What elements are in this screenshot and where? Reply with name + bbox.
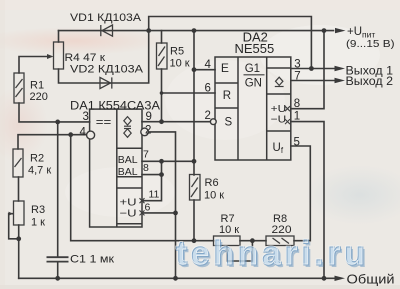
- wire DA1 pin11 line: [142, 161, 162, 200]
- IC DA2 NE555: [215, 57, 291, 160]
- junction pin 7 line to R6 top: [192, 159, 197, 164]
- wire DA1 pin7 line: [142, 160, 194, 162]
- svg-text:4: 4: [80, 126, 87, 138]
- wire DA2 pin8 to +U: [291, 31, 324, 109]
- svg-text:6: 6: [205, 83, 211, 95]
- svg-text:tehnari.ru: tehnari.ru: [175, 234, 368, 272]
- svg-text:7: 7: [143, 149, 149, 161]
- svg-text:3: 3: [294, 58, 300, 70]
- svg-text:R5: R5: [170, 46, 184, 58]
- resistor R7 (pot): [214, 236, 241, 246]
- svg-text:R4 47 к: R4 47 к: [65, 52, 106, 64]
- wire pin4 line DA1: [18, 135, 85, 149]
- junction DA1 ground branch on rail: [173, 276, 178, 281]
- arrow +Upit: [335, 28, 346, 33]
- junction pin 8 line to pin 11 branch: [159, 172, 164, 177]
- DA1 pin4 inversion circle: [87, 131, 95, 139]
- svg-text:BAL: BAL: [118, 154, 138, 166]
- svg-text:8: 8: [294, 98, 300, 110]
- IC DA1 K554CA3A: [90, 109, 142, 227]
- wire DA1 pin6 line: [142, 212, 176, 214]
- svg-text:2: 2: [145, 124, 151, 136]
- wire +U horizontal line: [59, 30, 334, 32]
- svg-text:VD1 КД103А: VD1 КД103А: [70, 12, 142, 24]
- svg-text:R2: R2: [30, 153, 44, 165]
- wire R6 bottom lead: [193, 200, 195, 241]
- wire bottom rail: [19, 277, 336, 279]
- svg-text:NE555: NE555: [235, 41, 275, 56]
- svg-text:1: 1: [294, 110, 300, 122]
- watermark tehnari.ru: [175, 234, 370, 275]
- svg-text:10 к: 10 к: [204, 189, 224, 201]
- junction +U line to R6 branch: [192, 28, 197, 33]
- wire DA2 pin3 output: [291, 68, 335, 70]
- DA1 pin2 inversion circle: [141, 128, 149, 136]
- wire R3 tap: [9, 214, 19, 239]
- wire DA2 pin7 output: [291, 80, 335, 82]
- DA1 open-collector diamonds: [124, 117, 131, 138]
- junction R5 bottom on pin 9 line: [159, 119, 164, 124]
- wire pin4 down branch: [71, 135, 214, 241]
- svg-text:7: 7: [294, 71, 300, 83]
- svg-text:G1: G1: [245, 63, 260, 75]
- svg-text:==: ==: [96, 115, 112, 129]
- svg-text:(9...15 В): (9...15 В): [346, 38, 395, 50]
- svg-text:R3: R3: [31, 204, 45, 216]
- junction pin 7 line to pin 8 branch: [159, 159, 164, 164]
- svg-text:−U: −U: [120, 207, 137, 219]
- wire DA1 pin9 to DA2 pin2: [142, 121, 210, 123]
- svg-text:R1: R1: [30, 80, 44, 92]
- wire VD2 line: [59, 31, 149, 83]
- svg-text:4,7 к: 4,7 к: [28, 165, 51, 177]
- wire DA1 pin2 to ground vertical: [148, 132, 175, 278]
- wire top rail (pin3 feedback): [149, 17, 312, 69]
- junction DA2 pin 3 output node: [309, 66, 314, 71]
- DA2 output diamond: [275, 77, 284, 86]
- svg-text:6: 6: [145, 202, 151, 214]
- wire DA2 pin1 to rail: [291, 122, 324, 279]
- junction R3 wiper tie: [16, 236, 21, 241]
- junction DA1 pin 6 to ground branch: [173, 211, 178, 216]
- wire x194 vertical: [193, 31, 195, 175]
- svg-text:3: 3: [83, 111, 89, 123]
- wire R3 bottom to rail: [18, 225, 20, 278]
- diode VD1: [101, 25, 113, 36]
- svg-text:Выход 2: Выход 2: [346, 76, 394, 88]
- DA2 x marks pins 8,1: [285, 106, 290, 124]
- resistor R8: [266, 236, 294, 246]
- junction +U line to DA2 pin 8: [322, 28, 327, 33]
- resistor R4 (pot): [54, 42, 64, 69]
- junction DA2 pin 6 to R5 lead: [160, 91, 164, 95]
- junction C1 on ground rail: [55, 276, 60, 281]
- R4 wiper arrowhead: [47, 54, 54, 59]
- wire DA2 pin4 line: [194, 69, 215, 71]
- junction diode node / feedback corner: [146, 28, 151, 33]
- junction node DA1 pin 4 / divider: [68, 132, 73, 137]
- resistor R2: [13, 149, 23, 177]
- wire R4 top lead: [58, 31, 60, 42]
- resistor R5: [157, 43, 168, 69]
- resistor R1: [14, 73, 24, 103]
- resistor R3: [14, 201, 25, 225]
- svg-text:R6: R6: [205, 177, 219, 189]
- svg-text:4: 4: [205, 59, 212, 71]
- junction R7 wiper / R8 node: [250, 238, 255, 243]
- junction DA2 pin 1 on ground rail: [322, 276, 327, 281]
- wire DA1 pin8 line: [142, 174, 162, 176]
- wire R7 wiper: [227, 241, 252, 261]
- DA2 pin2 inversion circle: [210, 119, 216, 125]
- svg-text:BAL: BAL: [118, 166, 138, 178]
- svg-text:VD2 КД103А: VD2 КД103А: [70, 64, 144, 76]
- svg-text:220: 220: [30, 91, 48, 103]
- svg-text:2: 2: [205, 110, 211, 122]
- arrow Vyhod1: [335, 66, 346, 71]
- wire R1 bottom to pin3 line: [19, 103, 90, 122]
- svg-text:E: E: [221, 61, 229, 75]
- svg-text:5: 5: [294, 136, 300, 148]
- wire R7 right link: [240, 240, 266, 242]
- svg-text:S: S: [225, 116, 233, 128]
- svg-text:1 к: 1 к: [31, 216, 45, 228]
- arrow Vyhod2: [335, 78, 346, 83]
- wire C1 branch: [57, 122, 59, 256]
- svg-text:9: 9: [146, 111, 152, 123]
- junction R6 bottom on R7 line: [192, 238, 197, 243]
- arrow Obshchiy: [335, 276, 346, 281]
- junction node DA1 pin 3 / C1: [55, 120, 60, 125]
- DA1 x marks pins 11,6: [140, 198, 145, 215]
- junction DA2 pin 4 tap: [192, 67, 197, 72]
- svg-text:R: R: [223, 90, 231, 102]
- svg-text:−U: −U: [271, 113, 287, 125]
- svg-text:10 к: 10 к: [170, 58, 190, 70]
- R7 wiper arrowhead: [225, 246, 230, 252]
- wire C1 to rail: [57, 262, 59, 278]
- wire R2-R3 link: [18, 177, 20, 201]
- wire R4 wiper from R1: [19, 57, 48, 74]
- wire R5 top lead: [161, 31, 163, 43]
- svg-text:8: 8: [143, 162, 149, 174]
- wire R8 right to DA2 pin5: [291, 146, 311, 241]
- wire R5 bottom lead: [161, 69, 163, 122]
- svg-text:11: 11: [149, 189, 160, 201]
- wire DA2 pin6 line: [162, 92, 216, 94]
- resistor R6: [190, 175, 201, 201]
- svg-text:GN: GN: [245, 78, 262, 90]
- R3 tap arrowhead: [9, 212, 14, 216]
- capacitor C1: [47, 257, 69, 261]
- svg-text:C1 1 мк: C1 1 мк: [70, 253, 114, 265]
- diode VD2: [100, 77, 112, 88]
